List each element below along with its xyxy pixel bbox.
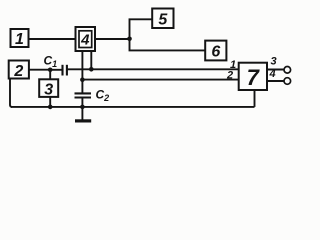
block 2	[9, 61, 29, 80]
svg-text:1: 1	[15, 31, 24, 48]
wire block1 to block4	[29, 38, 76, 40]
wire block7 pin3 to terminal	[267, 69, 284, 71]
wire block2 bottom to bus	[10, 79, 12, 107]
wire capacitor C2 to ground bus	[81, 98, 83, 107]
svg-text:7: 7	[247, 65, 261, 90]
wire node J3 to capacitor C1	[50, 69, 62, 71]
block 4 (double border)	[76, 27, 96, 51]
wire block4 bottom left pin down to capacitor C2	[81, 51, 83, 93]
block 3	[39, 79, 58, 98]
wire node J1 to block 6	[130, 39, 206, 51]
node J5 junction	[48, 105, 53, 110]
wire A: capacitor C1 to block 7 pin 1	[67, 68, 239, 70]
block 1	[11, 29, 29, 48]
svg-text:3: 3	[271, 56, 277, 68]
svg-text:2: 2	[13, 63, 23, 80]
block 7	[239, 63, 267, 90]
node J2 junction	[89, 67, 94, 72]
wire block3 bottom to bus	[49, 97, 51, 107]
node J6 junction	[80, 105, 85, 110]
wire block4 bottom right pin down to wire A	[90, 51, 92, 69]
svg-text:6: 6	[211, 44, 220, 61]
node J3 junction	[48, 68, 53, 73]
wire node J3 down to block 3	[49, 70, 51, 80]
capacitor C1	[63, 65, 67, 76]
block 6	[205, 41, 226, 61]
wire block2 to node J3	[29, 69, 50, 71]
svg-text:C1: C1	[44, 54, 58, 70]
capacitor C2	[75, 93, 92, 97]
node J1 junction	[127, 37, 132, 42]
wire B: node J4 to block 7 pin 2	[82, 79, 238, 81]
wire bus up to block 7 bottom	[254, 90, 256, 107]
svg-text:2: 2	[226, 70, 233, 82]
ground	[75, 107, 91, 123]
bottom bus wire	[11, 106, 255, 108]
wire block7 pin4 to terminal	[267, 80, 284, 82]
terminal 4 circle	[284, 78, 291, 85]
wire block4 to node J1	[95, 38, 130, 40]
svg-text:4: 4	[80, 32, 90, 49]
svg-text:3: 3	[44, 81, 53, 98]
svg-text:5: 5	[158, 12, 168, 29]
node J4 junction	[80, 77, 85, 82]
svg-text:C2: C2	[96, 88, 110, 104]
svg-text:4: 4	[269, 68, 276, 80]
block 5	[152, 9, 173, 29]
terminal 3 circle	[284, 67, 291, 74]
wire node J1 to block 5	[130, 19, 153, 39]
